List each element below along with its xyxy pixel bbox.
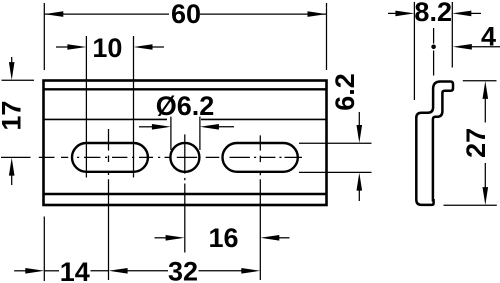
svg-text:32: 32 [168, 257, 198, 283]
svg-text:14: 14 [60, 257, 90, 283]
profile centerline [433, 28, 435, 76]
plate middle bend line (broken at hole callout) [44, 118, 327, 120]
dim 17 dimension line [11, 57, 13, 185]
dim 10 arrowheads [67, 44, 152, 50]
svg-text:60: 60 [171, 0, 201, 29]
dim 27 arrowheads [483, 81, 489, 205]
dim 16 arrow tails [155, 237, 290, 239]
svg-text:10: 10 [92, 33, 122, 63]
dim 8.2 extension lines [414, 2, 452, 100]
left slot vertical centerline [108, 129, 110, 280]
svg-text:8.2: 8.2 [414, 0, 452, 27]
dim 4 dimension line [470, 46, 500, 48]
dim 14 dimension line [14, 270, 108, 272]
svg-text:Ø6.2: Ø6.2 [156, 91, 215, 121]
left slot 10x6.2 [72, 143, 148, 172]
dim 17 extension line [2, 79, 35, 81]
dim slot width 6.2 arrowheads [357, 125, 363, 191]
dim 14 extension line [43, 217, 45, 282]
side view: clip profile outline [416, 82, 453, 205]
dim 14 arrowhead [25, 268, 44, 274]
dim 32 arrowheads [109, 268, 261, 274]
dim slot width 6.2 extension lines [299, 143, 372, 172]
dim 10 extension lines [86, 36, 133, 178]
svg-text:27: 27 [461, 128, 491, 158]
dim 60 dimension line [44, 13, 326, 15]
dim 32 dimension line [126, 270, 243, 272]
dim 27 extension lines [444, 81, 497, 206]
plate upper bend line [44, 88, 327, 90]
dim 4 reference dot [431, 45, 436, 50]
hole vertical centerline [184, 134, 186, 252]
svg-text:4: 4 [481, 22, 496, 52]
dim 16 arrowheads [166, 235, 280, 241]
plate lower bend line [44, 193, 327, 195]
dim hole diameter arrowheads [152, 124, 219, 130]
dim 27 dimension line [484, 97, 486, 188]
dim 8.2 arrowheads [395, 11, 471, 17]
svg-text:6.2: 6.2 [330, 73, 360, 111]
svg-text:16: 16 [208, 223, 238, 253]
center hole diameter 6.2 [170, 143, 199, 172]
dim 10 dimension line [56, 46, 164, 48]
svg-text:17: 17 [0, 101, 27, 131]
front view: plate outline 60x27 [44, 81, 327, 206]
dim slot width 6.2 arrow tails [358, 112, 360, 201]
dim 4 arrowhead [453, 44, 472, 50]
horizontal centerline [1, 156, 302, 158]
dim 8.2 arrow tails [388, 12, 481, 14]
right slot vertical centerline [259, 135, 261, 280]
dim 60 arrowheads [44, 11, 326, 17]
dim 60 extension lines [44, 3, 326, 70]
right slot 10x6.2 [223, 143, 298, 172]
dim 17 arrowheads [9, 62, 15, 176]
dim hole diameter arrow tails [139, 126, 234, 128]
dim hole diameter extension lines [171, 117, 200, 150]
